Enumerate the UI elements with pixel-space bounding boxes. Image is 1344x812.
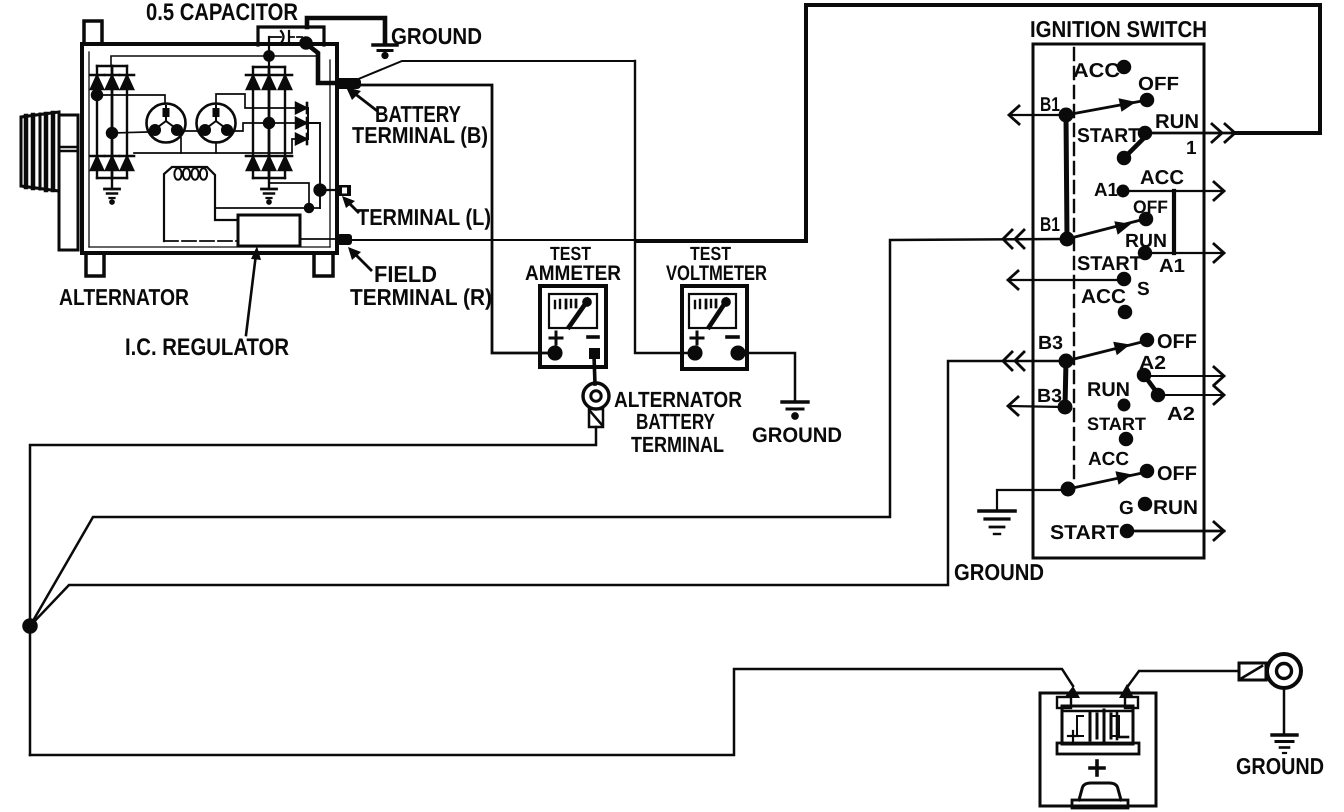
body ground eyelet terminal (1239, 654, 1301, 688)
svg-text:ACC: ACC (1140, 167, 1184, 189)
svg-text:OFF: OFF (1157, 463, 1197, 485)
wire right bridge to capacitor (268, 37, 270, 67)
junction blob at capacitor base (301, 38, 312, 49)
rectifier top rail (thin, inside alternator) (111, 56, 316, 66)
double chevron B3 (1003, 352, 1024, 370)
svg-text:TERMINAL: TERMINAL (631, 432, 724, 457)
label ALTERNATOR BATTERY TERMINAL (614, 387, 742, 457)
transistor Q1 (147, 104, 186, 143)
wire B3 left arrow (1008, 397, 1062, 415)
svg-text:IGNITION SWITCH: IGNITION SWITCH (1030, 16, 1207, 42)
wire regulator to terminal R (300, 238, 336, 240)
field diode trio FD1-FD3 (296, 103, 308, 144)
diodes D10-D12 (right bridge, bottom row) (246, 156, 292, 170)
svg-text:RUN: RUN (1155, 111, 1199, 133)
switch pole B1a (1060, 98, 1142, 121)
pointer to terminal B (346, 87, 376, 110)
ground (top, alternator capacitor) (373, 45, 397, 58)
wire ammeter minus down (594, 356, 595, 384)
svg-text:A2: A2 (1167, 404, 1195, 425)
svg-text:I.C. REGULATOR: I.C. REGULATOR (125, 334, 289, 361)
wire to Q1 base (97, 95, 165, 104)
ground (battery) (1272, 735, 1297, 753)
node terminal L (315, 185, 326, 196)
label FIELD TERMINAL (R) (350, 261, 492, 310)
wire ground pole to ground (997, 490, 1068, 510)
node B+ rail (264, 51, 273, 60)
diodes D1-D3 (left bridge, top row) (90, 75, 134, 89)
svg-text:0.5 CAPACITOR: 0.5 CAPACITOR (146, 0, 298, 26)
wire Q1 to Q2 (183, 130, 198, 132)
wire eyelet to ground (1283, 688, 1286, 734)
wire stator common rail (134, 139, 296, 153)
alternator battery terminal eyelet (583, 383, 609, 427)
svg-text:ACC: ACC (1073, 60, 1120, 82)
contact OFF1 (1141, 94, 1153, 106)
contact RUN4 (1139, 498, 1151, 510)
contact OFF3 (1141, 334, 1153, 346)
capacitor C1 (0.5) (269, 31, 305, 43)
contact START4 with arrow (1121, 522, 1224, 540)
pointer to IC regulator (246, 246, 261, 335)
ground (right bridge) (262, 178, 277, 204)
wire ignition terminal 1 feed (thick run) (637, 5, 1320, 241)
switch pole G (ground pole) (1062, 471, 1142, 495)
contact RUN2 with wire to A1 arrow (1139, 244, 1224, 262)
wire A2 upper arrow (1144, 367, 1224, 385)
wire S left arrow (1008, 271, 1120, 289)
pulley (21, 112, 78, 250)
wire splice to ignition B3 (30, 361, 1060, 626)
svg-text:AMMETER: AMMETER (525, 262, 621, 285)
ground (left bridge) (105, 178, 120, 204)
svg-text:B1: B1 (1040, 94, 1060, 116)
wire capacitor riser to ground (307, 18, 385, 43)
wire B to ammeter plus (358, 85, 551, 353)
battery polarity mark + (1090, 761, 1104, 775)
svg-text:VOLTMETER: VOLTMETER (666, 262, 767, 285)
svg-text:B1: B1 (1040, 214, 1060, 236)
terminal R (stud) (337, 234, 352, 245)
pointer to terminal R (348, 247, 371, 270)
svg-text:GROUND: GROUND (954, 559, 1044, 585)
svg-text:RUN: RUN (1153, 497, 1198, 519)
transistor Q2 (197, 104, 236, 143)
svg-text:TERMINAL (B): TERMINAL (B) (352, 122, 488, 148)
battery BAT outer case (1040, 693, 1156, 806)
wire A2 lower arrow (1158, 386, 1224, 404)
contact START1 lever (1118, 137, 1145, 164)
label BATTERY TERMINAL (B) (352, 101, 488, 148)
wire to Q1 left lead (112, 132, 147, 133)
diodes D4-D6 (left bridge, bottom row) (90, 156, 134, 170)
ignition switch dashed divider (1073, 48, 1075, 479)
svg-text:ACC: ACC (1088, 449, 1129, 470)
wire right bridge foot loop (269, 183, 309, 208)
contact ACC3 (1119, 306, 1131, 318)
IC regulator U1 (238, 215, 300, 246)
label TEST VOLTMETER (666, 244, 767, 285)
svg-text:ALTERNATOR: ALTERNATOR (59, 284, 189, 310)
svg-text:B3: B3 (1038, 333, 1063, 354)
svg-text:G: G (1119, 498, 1134, 519)
wire node to terminal L (320, 189, 336, 191)
svg-text:OFF: OFF (1157, 331, 1197, 353)
pointer to terminal L (342, 196, 358, 212)
wire B sense diagonal (356, 61, 635, 80)
test voltmeter M2 (682, 286, 747, 369)
svg-text:RUN: RUN (1087, 379, 1130, 401)
battery hold-down dome (1072, 783, 1128, 808)
switch pole B1b (1061, 220, 1141, 245)
svg-text:1: 1 (1186, 138, 1197, 159)
wire splice to ignition B1 (30, 239, 1060, 626)
battery BAT cell block (1057, 684, 1139, 754)
double chevron B1 (1003, 230, 1024, 248)
svg-text:GROUND: GROUND (1236, 753, 1324, 779)
label TEST AMMETER (525, 244, 621, 285)
wire field diode common to terminal L (308, 123, 320, 208)
svg-text:TERMINAL (L): TERMINAL (L) (357, 204, 491, 230)
wire Q2 lower lead (215, 142, 217, 153)
bracket A1 (ACC-RUN tie) (1172, 191, 1176, 253)
contact OFF4 (1141, 465, 1153, 477)
node on left bridge leg (92, 90, 102, 100)
svg-text:GROUND: GROUND (752, 424, 842, 447)
node centre of right bridge (264, 118, 274, 128)
capacitor C1 housing bump (258, 27, 324, 45)
diode bridge right: vertical legs (253, 67, 285, 178)
svg-text:ACC: ACC (1081, 286, 1126, 308)
node on left bridge centre leg (107, 128, 117, 138)
svg-text:GROUND: GROUND (391, 23, 482, 49)
field coil L1 (164, 167, 238, 241)
svg-text:START: START (1087, 414, 1146, 434)
wire Q1 emitter down (180, 132, 181, 153)
wire B1 left arrow (1009, 106, 1062, 124)
pole link bar B3 (1065, 361, 1066, 407)
junction node (main splice) (24, 620, 37, 633)
svg-text:A1: A1 (1159, 256, 1185, 277)
wire B sense vertical to voltmeter plus (635, 61, 690, 353)
wire Q2 collector to diode trio row 1 (216, 94, 296, 108)
wire splice to battery positive (30, 669, 1073, 755)
diode bridge left: vertical legs (97, 66, 127, 178)
terminal L (stud) (338, 185, 351, 196)
wire field coil to L node (215, 207, 320, 209)
ground (voltmeter) (782, 402, 808, 419)
wire battery negative to body ground eyelet (1128, 671, 1239, 686)
svg-text:START: START (1077, 253, 1142, 275)
ground (ignition switch) (979, 511, 1015, 534)
contact A1 with wire to ACC arrow (1118, 182, 1224, 200)
svg-text:TERMINAL (R): TERMINAL (R) (350, 284, 492, 310)
contact RUN1 and wire to terminal 1 (1139, 124, 1320, 142)
wire B internal (capacitor junction to battery terminal B) (308, 45, 334, 83)
wire field coil bottom to regulator (164, 240, 238, 242)
wire eyelet to main junction (30, 427, 596, 755)
switch pole B3a (1060, 342, 1142, 367)
contact RUN3 (1119, 400, 1129, 410)
svg-text:OFF: OFF (1138, 74, 1179, 95)
wire voltmeter minus to ground (738, 353, 795, 401)
diodes D7-D9 (right bridge, top row) (246, 75, 292, 89)
switch pole B3b (1059, 401, 1071, 413)
svg-text:A1: A1 (1094, 180, 1118, 201)
svg-text:START: START (1077, 125, 1140, 147)
contact START3 (1120, 433, 1132, 445)
battery terminal B (stud) (335, 78, 361, 89)
test ammeter M1 (540, 286, 606, 367)
svg-text:START: START (1050, 522, 1119, 544)
svg-text:BATTERY: BATTERY (636, 409, 715, 434)
node field net (305, 204, 313, 212)
wire R to ignition feed (352, 239, 640, 241)
svg-text:S: S (1137, 279, 1150, 300)
pole link bar B1 (1066, 115, 1067, 239)
wire Q2 emitter to diode trio row 2 (229, 123, 296, 131)
contact A2 lever (1138, 369, 1164, 401)
contact OFF2 (1140, 213, 1152, 225)
ignition switch box S1 (1033, 44, 1204, 558)
alternator case (82, 21, 337, 276)
contact S (1118, 273, 1130, 285)
contact ACC1 (1118, 61, 1130, 73)
